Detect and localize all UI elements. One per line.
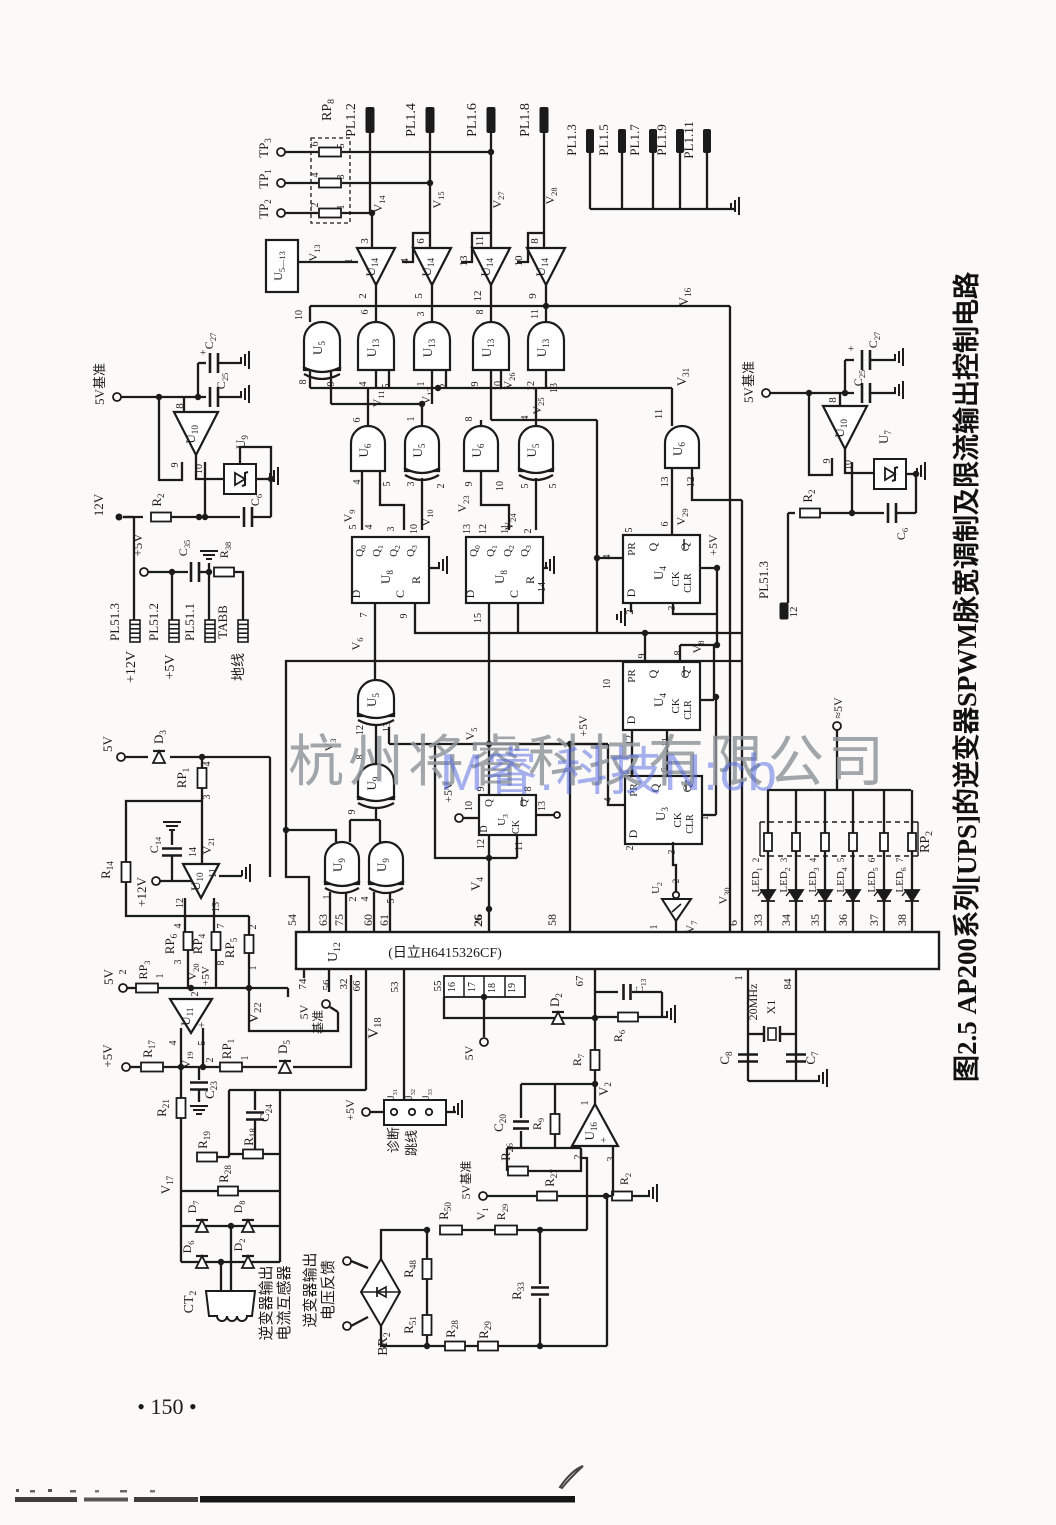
svg-text:逆变器输出: 逆变器输出 [302,1252,319,1327]
terminal 5V reference left [113,393,121,401]
resistor R29 [495,1226,517,1235]
svg-text:5: 5 [348,525,359,530]
svg-text:1: 1 [700,816,711,821]
svg-text:9: 9 [527,293,539,299]
svg-text:5V基准: 5V基准 [92,363,107,405]
resistor RP8 element [319,148,341,157]
svg-text:7: 7 [216,924,227,929]
svg-text:跳线: 跳线 [404,1130,419,1156]
svg-text:2: 2 [118,970,129,975]
svg-text:PL1.7: PL1.7 [627,124,642,156]
wire U14 output [490,285,492,322]
wire row2 to U8a [361,471,363,530]
svg-text:6: 6 [352,418,363,423]
svg-text:11: 11 [653,409,665,420]
svg-text:Q: Q [678,669,692,678]
LED3 [815,890,832,901]
resistor LED branch 4 [849,833,857,851]
wire 8 stub right [839,393,841,406]
LED branch 3 wire [824,790,826,931]
wire R2 row [171,516,240,518]
ground C27 right [895,348,903,366]
svg-text:2: 2 [751,858,761,863]
ground C27 left [241,351,249,369]
capacitor C13 [595,991,618,993]
capacitor C6 left [244,507,252,527]
op-amp U16 [572,1104,618,1146]
svg-text:17: 17 [467,982,478,992]
resistor R2 bottom [612,1192,632,1201]
capacitor C20 [520,1084,522,1118]
LED5 [874,890,891,901]
wire 5V branch [481,994,487,1000]
svg-text:14: 14 [537,582,548,592]
svg-text:4: 4 [360,897,371,902]
diode D2 [552,1012,564,1024]
ground C25 right [895,381,903,399]
wire right branch [279,1154,281,1262]
terminal 5V ref bottom [479,1192,487,1200]
svg-text:1: 1 [580,1101,591,1106]
wire U4b CLR [700,699,714,701]
LED branch 2 wire [795,790,797,931]
svg-text:6: 6 [660,522,671,527]
terminal 5V ref mid [322,1000,330,1008]
svg-text:1: 1 [322,895,333,900]
resistor LED branch 6 [908,833,916,851]
wire diode row 1226 [181,1225,280,1227]
wire bus V11 [309,370,311,388]
svg-text:7: 7 [359,613,370,618]
svg-text:D: D [479,825,490,832]
svg-text:20MHz: 20MHz [746,984,760,1021]
svg-text:2: 2 [205,1058,216,1063]
svg-text:5: 5 [548,484,559,489]
ground crystal [819,1069,827,1087]
svg-text:13: 13 [382,722,393,732]
svg-text:4: 4 [364,525,375,530]
IC U12 Hitachi H6415326CF [296,932,939,969]
svg-text:+: + [848,343,854,355]
svg-text:3: 3 [202,795,213,800]
resistor R2 left [123,516,143,518]
wire V4 to U12 [488,858,490,931]
wire U9 top loop [240,447,271,517]
svg-text:5: 5 [836,857,846,862]
wire U14 output [375,285,377,322]
svg-text:12: 12 [478,524,489,534]
svg-text:13: 13 [462,524,473,534]
resistor R19 [197,1153,217,1162]
svg-text:M睿.科技N:cb: M睿.科技N:cb [440,744,779,802]
ground U8a reset [429,567,440,569]
svg-text:10: 10 [602,679,613,689]
svg-text:10: 10 [495,481,506,491]
counter U8 [352,537,429,603]
capacitor C14 [162,849,182,856]
wire node V31 [671,388,673,426]
potentiometer RP4 [212,932,221,950]
wire crystal bottom [748,1080,820,1082]
op-amp U11 [170,999,212,1033]
ground [731,197,739,215]
svg-text:1: 1 [155,974,166,979]
wire U4 pin3 +5V [673,603,717,614]
svg-text:TABB: TABB [215,605,230,639]
svg-text:18: 18 [487,983,498,993]
svg-text:7: 7 [895,857,905,862]
wire row2 to U8b [421,478,423,530]
scan squiggle [560,1466,583,1488]
svg-text:5: 5 [386,899,397,904]
svg-text:61: 61 [377,914,391,926]
svg-text:4: 4 [358,382,369,387]
wire feedback loop top [521,1083,595,1085]
capacitor C23 [198,1067,200,1080]
op-amp U10 left [174,412,218,455]
capacitor C25 left [210,387,218,407]
wire U8b D output V5 [488,603,490,795]
svg-text:9: 9 [399,614,410,619]
connector PL1.4 [426,107,435,133]
wire CT2 leads [220,1262,222,1291]
svg-text:图2.5 AP200系列[UPS]的逆变器SPWM脉宽调制: 图2.5 AP200系列[UPS]的逆变器SPWM脉宽调制及限流输出控制电路 [951,271,982,1082]
dashed line top [760,821,918,823]
op-amp U14 section at x376 [357,248,395,285]
svg-text:4: 4 [168,1041,179,1046]
wire 5V to LED bus [836,730,838,790]
svg-text:CLR: CLR [683,700,694,720]
wire U8a D output V6 [374,603,376,680]
svg-text:1: 1 [240,1056,251,1061]
gate U9 xor chain3 [325,842,359,884]
wire PL1.3 to ground bus [589,153,591,209]
resistor R50 [440,1226,462,1235]
wire U16 pin3 down [612,1146,614,1196]
test point TP1 [277,179,285,187]
wire R29 right [517,1229,587,1231]
resistor R7 [591,1050,600,1070]
scan artifact bar [200,1496,575,1503]
svg-text:9: 9 [470,382,481,387]
svg-text:5V: 5V [100,735,115,752]
ground U8b reset [543,567,548,569]
svg-text:12: 12 [472,291,484,302]
svg-text:14: 14 [188,847,199,857]
svg-text:10: 10 [464,801,475,811]
LED branch 1 wire [767,790,769,931]
wire PL1.5 to ground bus [621,153,623,209]
svg-text:X1: X1 [764,1000,778,1015]
svg-text:2: 2 [625,846,636,851]
svg-text:2: 2 [671,879,681,884]
svg-text:15: 15 [473,613,484,623]
svg-text:1: 1 [649,925,660,930]
svg-text:6: 6 [360,310,371,315]
wire stair U14b input [402,233,430,262]
wire D2 row [444,997,595,1018]
svg-text:3: 3 [173,960,184,965]
op-amp U14 section at x432 [413,248,451,285]
svg-text:8: 8 [673,651,684,656]
svg-text:13: 13 [211,902,222,912]
svg-text:8: 8 [827,397,839,403]
resistor R48 [423,1259,432,1279]
svg-text:9: 9 [347,810,358,815]
terminal BR2 top [343,1257,351,1265]
wire U6 to U4 CK [671,468,673,535]
svg-text:2: 2 [436,484,447,489]
gate U5 row2 x422 [405,426,439,471]
svg-text:D: D [626,829,640,838]
test point TP3 [277,148,285,156]
diode D6 [196,1256,208,1268]
svg-text:3: 3 [359,238,371,244]
svg-text:10: 10 [513,255,525,267]
connector PL1.2 [366,107,375,133]
wire node V16 [310,305,730,307]
resistor R2 right [788,512,795,514]
wire C35 right [199,571,212,573]
terminal +5V [122,1063,130,1071]
LED branch 4 wire [852,790,854,931]
wire C14 down [171,856,173,881]
wire U3 pin4 feed [489,743,608,745]
svg-text:2: 2 [573,1155,584,1160]
svg-text:84: 84 [782,978,794,990]
terminal +5V jumper [362,1108,370,1116]
connector TABB [238,620,248,642]
wire pin10 down right [851,462,853,513]
svg-text:4: 4 [173,924,184,929]
wire PL1.11 to ground bus [706,153,708,209]
resistor R6 [595,1016,617,1018]
svg-text:5V: 5V [101,968,116,985]
connector PL1.7 [649,129,657,153]
svg-text:PL51.1: PL51.1 [182,603,197,641]
resistor LED branch 3 [821,833,829,851]
wire +12V to U10 [160,880,192,882]
svg-text:地线: 地线 [231,653,247,681]
svg-text:11: 11 [514,841,525,851]
ground U4 pin2 [630,603,632,612]
wire U4 PR left [596,420,598,633]
svg-text:13: 13 [659,476,671,488]
flip-flop U3 right [625,776,702,844]
svg-text:1: 1 [733,975,745,981]
svg-text:R: R [409,576,423,584]
op-amp U14 section at x546 [527,248,565,285]
svg-text:5: 5 [413,293,425,299]
svg-text:8: 8 [298,380,309,385]
wire RP5 bottom [248,953,250,988]
svg-text:PL1.6: PL1.6 [465,103,480,137]
svg-text:C: C [393,590,407,598]
svg-text:56: 56 [321,979,333,991]
resistor R21 [180,1067,182,1098]
LED bus [767,789,911,791]
wire U3 bottom loop [488,835,490,858]
wire main row 988 [158,987,288,989]
svg-text:4: 4 [310,173,321,178]
svg-text:CK: CK [672,812,684,827]
LED branch 5 wire [883,790,885,931]
counter U8 [466,537,543,603]
svg-text:5V: 5V [297,1004,311,1019]
connector PL51.1 [205,620,215,642]
wire xor2 out split [375,807,377,820]
pin 66 [365,969,367,1090]
svg-text:D: D [349,589,363,598]
resistor R28 bottom [445,1342,465,1351]
flip-flop U4 second [623,662,700,730]
scan artifact specks [16,1489,19,1492]
svg-text:66: 66 [351,980,363,992]
capacitor C8 [738,1055,758,1062]
gate U6 right [665,426,699,468]
svg-text:9: 9 [637,654,648,659]
wire V22 branch [287,988,289,997]
svg-text:PL1.3: PL1.3 [564,124,579,155]
capacitor C27 left loop [197,363,199,397]
wire PL1.2 to U14a [370,133,372,248]
gate U6 row2 x368 [351,426,385,471]
connector PL51.3 [130,620,140,642]
wire TP3 row [285,151,318,153]
resistor LED branch 2 [792,833,800,851]
wire left input xor3 [286,830,336,842]
svg-text:34: 34 [779,914,793,926]
svg-text:10: 10 [294,310,305,320]
svg-text:8: 8 [216,961,227,966]
inverter U2 [673,892,679,898]
svg-text:55: 55 [432,980,444,992]
wire U6 pin12 branch [692,468,742,500]
terminal 5V [117,753,125,761]
wire RP1 to V21 [201,788,203,864]
wire diode row 1262 [181,1261,280,1263]
svg-text:+5V: +5V [100,1044,115,1068]
svg-text:PL51.3: PL51.3 [756,561,771,599]
capacitor C35 [191,562,199,582]
svg-text:75: 75 [332,914,346,926]
svg-text:3: 3 [406,482,417,487]
svg-text:5: 5 [382,482,393,487]
svg-text:3: 3 [606,1157,617,1162]
svg-text:26: 26 [471,915,485,927]
ground U10 pin11 [219,875,242,877]
ground U9 left [256,478,268,480]
wire C24 box [228,1090,230,1157]
wire 744 horizontal [388,727,390,744]
terminal +5V left [140,568,148,576]
wire +5V row [148,571,188,573]
svg-text:PR: PR [626,669,638,683]
capacitor C25 right [862,383,870,403]
wire stair U14d input [517,233,544,262]
wire crystal left [747,969,749,1081]
svg-text:58: 58 [545,914,559,926]
svg-text:PL1.9: PL1.9 [654,124,669,155]
svg-text:CLR: CLR [683,573,694,593]
wire RP5 top [248,916,250,935]
pins 16-19 box [444,976,525,997]
wire U12 pin67 down to U16 [594,969,596,1051]
diode D3 [153,751,165,763]
wire PL1.7 to ground bus [652,153,654,209]
svg-text:Q: Q [646,542,660,551]
resistor R51 [423,1315,432,1335]
ground above C35 [208,563,210,572]
wire U10 apex to U7 box [845,449,874,473]
resistor RP8 element [319,179,341,188]
wire U10 pin13 to RP4 [213,898,215,932]
svg-text:• 150 •: • 150 • [137,1394,196,1419]
wire U10 pin12 to RP6 [184,898,186,932]
wire junction R48 [462,1229,495,1231]
svg-text:33: 33 [751,914,765,926]
svg-text:电流互感器: 电流互感器 [276,1265,293,1340]
wire feedback U10 left [159,397,182,480]
resistor R29 bottom [478,1342,498,1351]
resistor RP3 [127,987,136,989]
svg-text:基准: 基准 [311,1010,325,1034]
svg-text:8: 8 [529,238,541,244]
terminal +5V U3 [455,814,463,822]
wire PL1.8 to U14d [543,133,545,248]
svg-text:5: 5 [624,528,635,533]
wire long 1090 [229,1089,366,1091]
wire R27 to R2 [558,1195,611,1197]
diode D5 [279,1061,291,1073]
svg-text:CK: CK [511,819,522,834]
op-amp U14 section at x491 [472,248,510,285]
connector PL51.2 [169,620,179,642]
wire gate outputs to row2 [375,370,377,388]
svg-text:+5V: +5V [163,654,178,679]
wire bus V12 [330,370,332,404]
svg-text:Q: Q [678,542,692,551]
resistor R26 [508,1167,528,1176]
LED branch 6 wire [911,790,913,931]
svg-text:3: 3 [386,527,397,532]
wire TP1 row [285,182,318,184]
svg-text:≈5V: ≈5V [831,697,845,719]
resistor R18 [243,1150,263,1159]
svg-text:74: 74 [297,978,309,990]
svg-text:13: 13 [537,801,548,811]
svg-text:8: 8 [464,417,475,422]
svg-text:36: 36 [836,914,850,926]
svg-text:5: 5 [520,484,531,489]
svg-text:11: 11 [208,868,219,878]
svg-text:2: 2 [523,529,534,534]
gate U13 row1 x546 [528,322,564,370]
svg-text:PL1.11: PL1.11 [681,121,696,158]
svg-text:1: 1 [416,382,427,387]
LED6 [902,890,919,901]
wire rail x742 [741,500,743,931]
svg-text:+5V: +5V [706,534,720,556]
svg-text:+5V: +5V [343,1099,357,1121]
connector PL1.6 [487,107,496,133]
svg-text:37: 37 [867,914,881,926]
wire feedback U10 right [809,393,832,475]
resistor R28 [218,1187,238,1196]
ground R6 [662,1016,668,1018]
svg-text:19: 19 [507,983,518,993]
IC block U5-13 [266,240,298,292]
